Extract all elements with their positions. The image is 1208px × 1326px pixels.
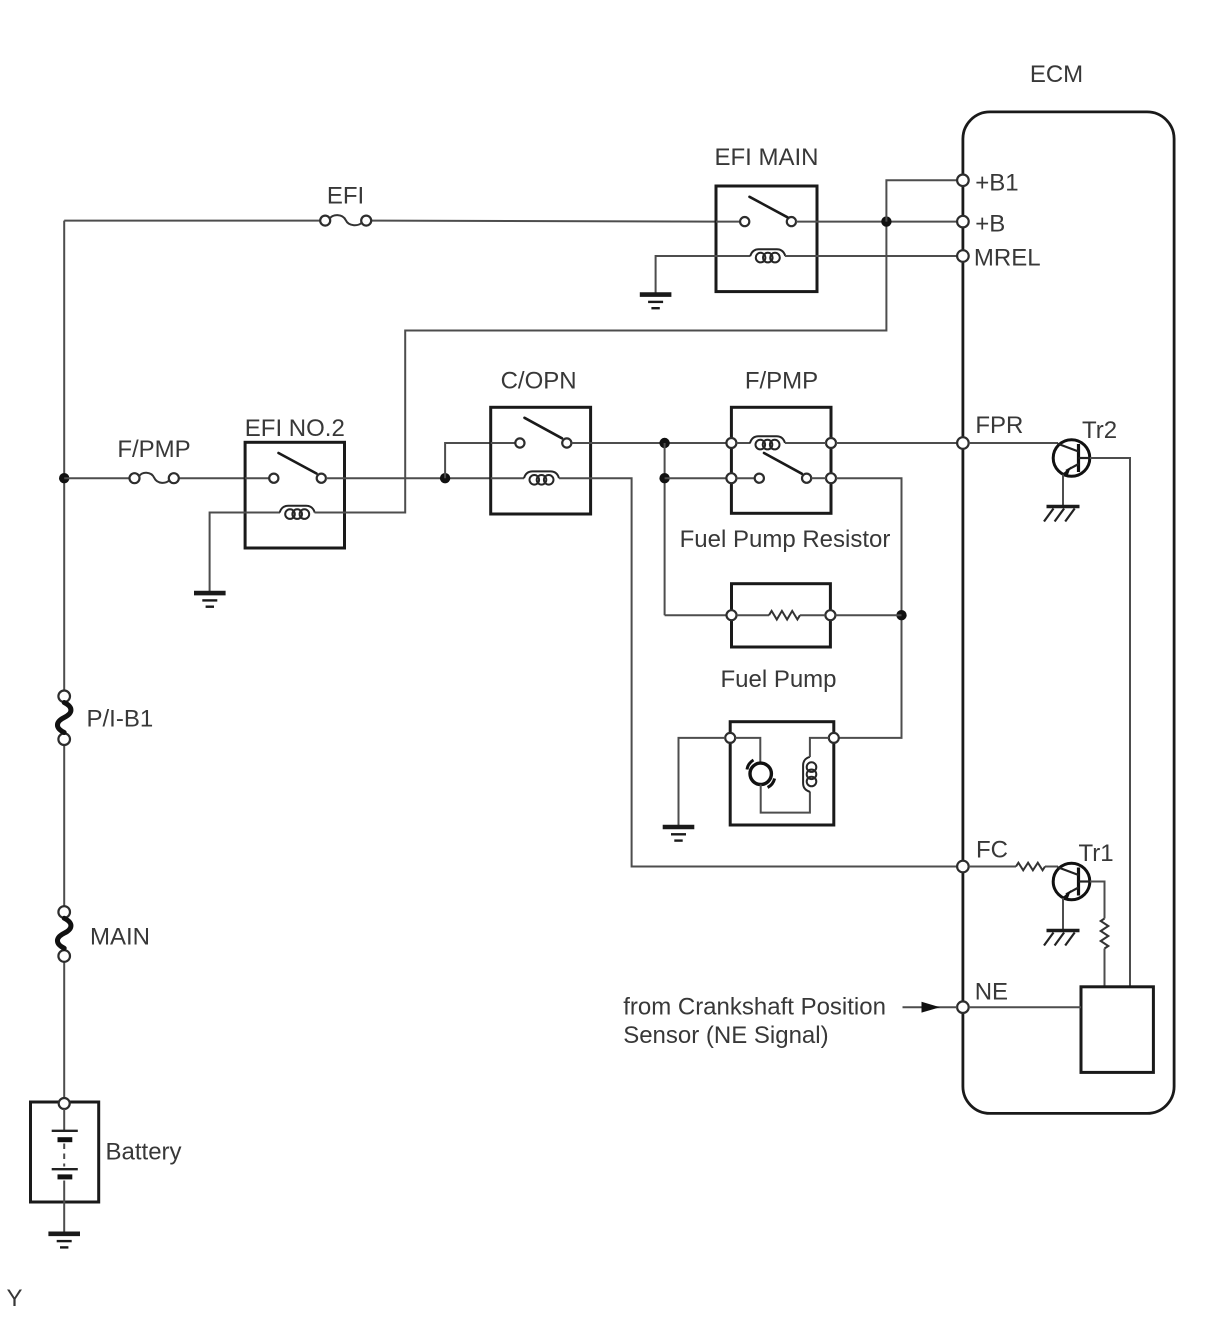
fuel pump [725,722,839,825]
svg-text:P/I-B1: P/I-B1 [87,706,154,733]
wire Tr2 emitter to ground [1062,475,1064,507]
wire EFI MAIN switch to +B terminal [817,221,957,223]
fusible link MAIN [57,906,71,962]
wire F/PMP coil to FPR terminal [836,442,957,444]
wire branch down x664 [664,443,666,615]
terminal NE [957,1001,969,1013]
wire EFI feed (top horizontal) [64,221,716,222]
node F/PMP coil branch [659,438,669,448]
svg-text:+B1: +B1 [975,169,1018,196]
svg-text:Fuel Pump: Fuel Pump [720,666,836,693]
wire Tr1 emitter to ground [1062,898,1064,930]
svg-text:EFI NO.2: EFI NO.2 [245,415,345,442]
transistor Tr2 [1053,440,1090,477]
svg-text:MAIN: MAIN [90,924,150,951]
svg-text:Fuel Pump Resistor: Fuel Pump Resistor [680,526,891,553]
terminal FPR [957,437,969,449]
ground below battery [48,1234,80,1248]
wire fuel pump to ground [679,738,726,827]
terminal +B [957,216,969,228]
svg-text:+B: +B [975,211,1005,238]
svg-text:Sensor (NE Signal): Sensor (NE Signal) [623,1022,828,1049]
wire EFI MAIN coil to MREL terminal [817,255,957,257]
svg-text:Tr2: Tr2 [1082,417,1117,444]
wire FC to Tr1 base [969,866,1058,868]
resistor Tr1 collector [1101,919,1109,949]
wire EFI MAIN coil to ground [656,256,716,294]
relay C/OPN [491,407,591,514]
wire +B junction to +B1 terminal [886,180,957,221]
svg-text:NE: NE [975,979,1008,1006]
wire FPR to Tr2 base [969,442,1058,444]
wire C/OPN switch out to F/PMP coil [591,442,727,444]
ground EFI NO.2 [194,593,226,607]
resistor Tr1 base [1016,863,1045,871]
svg-text:Tr1: Tr1 [1079,840,1114,867]
svg-text:EFI MAIN: EFI MAIN [714,144,818,171]
wire branch to F/PMP switch [665,477,727,479]
relay F/PMP [726,407,836,513]
terminal MREL [957,250,969,262]
ground Tr2 [1044,507,1080,522]
svg-text:FPR: FPR [975,412,1023,439]
arrow from crankshaft sensor [903,1002,958,1013]
wire C/OPN coil to FC line [591,478,958,866]
svg-text:F/PMP: F/PMP [745,368,818,395]
wire F/PMP fuse row [64,477,245,479]
wire main row to C/OPN coil [345,477,491,479]
ground EFI MAIN [640,295,672,309]
svg-text:Y: Y [7,1285,23,1312]
node battery feed / F-PMP fuse branch [59,473,69,483]
node resistor junction [896,610,906,620]
relay EFI MAIN [716,186,817,292]
relay EFI NO.2 [245,442,344,548]
wire Tr2 collector to NE block [1090,458,1130,987]
fuse EFI [320,215,371,226]
wire F/PMP switch to fuel pump [836,478,902,738]
transistor Tr1 [1053,863,1090,900]
wire branch up to C/OPN switch [445,443,491,478]
svg-text:FC: FC [976,837,1008,864]
node crossing F/PMP switch row [659,473,669,483]
svg-text:ECM: ECM [1030,61,1083,88]
node C/OPN branch [440,473,450,483]
terminal +B1 [957,175,969,187]
wire battery to ground [63,1202,65,1234]
ECM box [963,112,1174,1114]
svg-text:EFI: EFI [327,183,364,210]
ground fuel pump [663,827,695,841]
wire branch to fuel pump resistor [665,614,727,616]
svg-text:C/OPN: C/OPN [501,368,577,395]
fusible link P/I-B1 [57,691,71,746]
battery [31,1098,99,1202]
ground Tr1 [1044,931,1080,946]
label from Crankshaft Position Sensor [623,994,886,1049]
svg-text:from Crankshaft Position: from Crankshaft Position [623,994,886,1021]
svg-text:MREL: MREL [974,245,1041,272]
terminal FC [957,861,969,873]
wire resistor to junction [835,614,901,616]
wire EFI NO.2 coil to +B junction [345,222,887,513]
svg-text:F/PMP: F/PMP [117,436,190,463]
wire battery positive feed (left vertical) [63,221,65,1099]
NE signal block [1081,987,1153,1073]
node +B junction [881,216,891,226]
fuse F/PMP [130,473,179,484]
svg-text:Battery: Battery [106,1139,182,1166]
wire EFI NO.2 coil to ground [210,513,246,593]
fuel pump resistor [727,584,836,647]
wire Tr1 collector [1090,882,1105,987]
wire NE terminal to block [969,1006,1081,1008]
